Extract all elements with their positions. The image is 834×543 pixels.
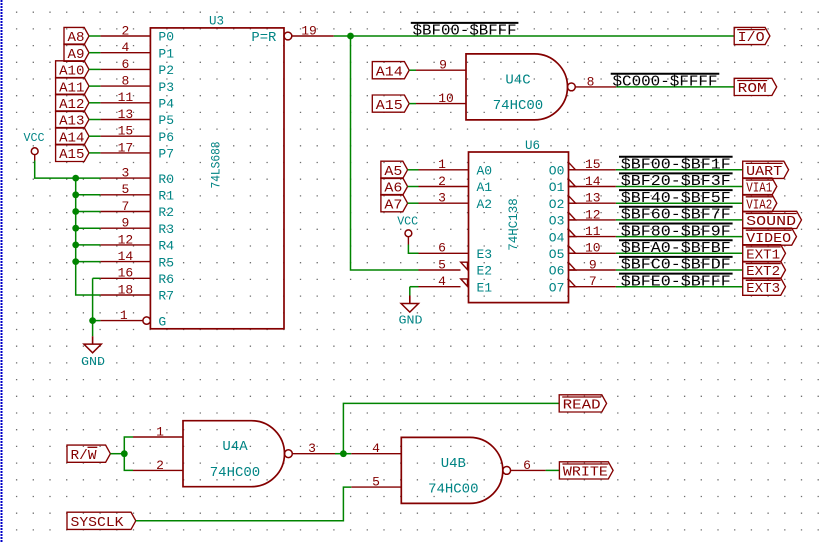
svg-text:O1: O1 bbox=[549, 180, 565, 195]
svg-text:U3: U3 bbox=[209, 14, 224, 28]
wire bbox=[76, 227, 101, 229]
net flag UART bbox=[743, 161, 789, 180]
pin 6 of U4B bbox=[511, 458, 546, 473]
IC U3 74LS688 body bbox=[150, 28, 284, 329]
net name label $BFA0-$BFBF bbox=[619, 240, 733, 257]
svg-text:SYSCLK: SYSCLK bbox=[71, 515, 125, 531]
pin 3 (A2) of U6 bbox=[419, 191, 493, 212]
wire bbox=[616, 252, 743, 254]
wire bbox=[616, 86, 734, 88]
svg-text:R2: R2 bbox=[158, 205, 174, 220]
svg-text:G: G bbox=[158, 314, 166, 329]
pin 4 (E1, active-low) of U6 bbox=[419, 274, 493, 295]
svg-text:8: 8 bbox=[587, 74, 595, 89]
net name label $BFC0-$BFDF bbox=[619, 257, 733, 274]
svg-text:15: 15 bbox=[585, 157, 601, 172]
pin 5 (R1) of U3 bbox=[100, 182, 174, 203]
svg-text:5: 5 bbox=[121, 182, 129, 197]
svg-text:R/W: R/W bbox=[71, 448, 98, 464]
ground (U6 E1) bbox=[399, 296, 423, 328]
net flag EXT2 bbox=[743, 261, 786, 280]
svg-text:A7: A7 bbox=[384, 197, 402, 213]
wire bbox=[409, 69, 416, 71]
svg-text:A15: A15 bbox=[59, 147, 84, 163]
pin 1 (G, inverted) of U3 bbox=[100, 308, 166, 329]
net label R/W bbox=[67, 445, 110, 464]
pin 15 (O0, active-low) of U6 bbox=[549, 157, 616, 178]
wire bbox=[409, 287, 411, 296]
wire bbox=[408, 186, 419, 188]
svg-text:WRITE: WRITE bbox=[563, 465, 608, 481]
svg-text:$BF20-$BF3F: $BF20-$BF3F bbox=[621, 174, 731, 190]
svg-text:$C000-$FFFF: $C000-$FFFF bbox=[613, 75, 718, 91]
svg-text:A0: A0 bbox=[477, 164, 493, 179]
svg-text:74HC00: 74HC00 bbox=[210, 465, 260, 481]
wire bbox=[409, 103, 416, 105]
svg-text:P5: P5 bbox=[158, 113, 174, 128]
svg-text:O3: O3 bbox=[549, 214, 565, 229]
pin 14 (O1, active-low) of U6 bbox=[549, 174, 616, 195]
svg-text:O2: O2 bbox=[549, 197, 565, 212]
svg-text:$BFC0-$BFDF: $BFC0-$BFDF bbox=[621, 258, 731, 274]
NAND gate U4B 74HC00 bbox=[401, 437, 510, 503]
pin 9 (R3) of U3 bbox=[100, 216, 174, 237]
svg-text:R3: R3 bbox=[158, 222, 174, 237]
junction bbox=[72, 175, 79, 182]
wire bbox=[616, 219, 743, 221]
net label A10 bbox=[56, 61, 89, 80]
svg-text:O7: O7 bbox=[549, 280, 565, 295]
junction bbox=[72, 191, 79, 198]
svg-text:A2: A2 bbox=[477, 197, 493, 212]
svg-text:U4C: U4C bbox=[505, 72, 530, 88]
svg-text:P7: P7 bbox=[158, 147, 174, 162]
svg-text:16: 16 bbox=[118, 266, 134, 281]
pin 3 (R0) of U3 bbox=[100, 166, 174, 187]
pin 16 (R6) of U3 bbox=[100, 266, 174, 287]
wire bbox=[89, 152, 100, 154]
junction bbox=[72, 258, 79, 265]
wire bbox=[124, 454, 133, 471]
svg-text:17: 17 bbox=[118, 140, 134, 155]
net name label $BF60-$BF7F bbox=[619, 207, 733, 224]
wire bbox=[89, 102, 100, 104]
pin 6 (P2) of U3 bbox=[100, 57, 174, 78]
net name label $BF00-$BFFF bbox=[411, 23, 519, 40]
pin 2 (P0) of U3 bbox=[100, 23, 174, 44]
svg-text:GND: GND bbox=[81, 355, 105, 369]
svg-text:P1: P1 bbox=[158, 46, 174, 61]
svg-text:3: 3 bbox=[308, 441, 316, 456]
pin 11 (P4) of U3 bbox=[100, 90, 174, 111]
wire SYSCLK to U4B pin 5 bbox=[136, 487, 351, 521]
svg-text:U4A: U4A bbox=[222, 439, 248, 455]
wire bbox=[89, 68, 100, 70]
net flag VIA1 bbox=[743, 178, 777, 197]
junction bbox=[72, 208, 79, 215]
wire bbox=[343, 453, 351, 455]
pin 18 (R7) of U3 bbox=[100, 282, 174, 303]
svg-text:4: 4 bbox=[121, 40, 129, 55]
svg-text:12: 12 bbox=[585, 207, 601, 222]
pin 13 (P5) of U3 bbox=[100, 107, 174, 128]
wire bbox=[93, 277, 101, 279]
net name label $BF40-$BF5F bbox=[619, 190, 733, 207]
svg-text:EXT3: EXT3 bbox=[746, 281, 780, 297]
net label A15 (U4C) bbox=[372, 95, 409, 114]
svg-text:E3: E3 bbox=[477, 247, 493, 262]
svg-text:6: 6 bbox=[523, 458, 531, 473]
net flag SOUND bbox=[743, 211, 802, 230]
pin 10 (O5, active-low) of U6 bbox=[549, 241, 616, 262]
svg-text:A15: A15 bbox=[376, 98, 403, 114]
wire bbox=[546, 469, 560, 471]
svg-text:U6: U6 bbox=[525, 139, 540, 153]
svg-text:GND: GND bbox=[399, 314, 423, 328]
svg-text:READ: READ bbox=[563, 398, 601, 414]
svg-text:7: 7 bbox=[121, 199, 129, 214]
svg-text:$BF00-$BF1F: $BF00-$BF1F bbox=[621, 158, 731, 174]
svg-text:O4: O4 bbox=[549, 230, 565, 245]
svg-text:ROM: ROM bbox=[738, 81, 767, 97]
power VCC (U6 E3) bbox=[397, 215, 418, 245]
svg-text:9: 9 bbox=[589, 257, 597, 272]
svg-text:8: 8 bbox=[121, 74, 129, 89]
net flag VIA2 bbox=[743, 195, 777, 214]
svg-text:13: 13 bbox=[118, 107, 134, 122]
wire bbox=[408, 169, 419, 171]
svg-text:R4: R4 bbox=[158, 239, 174, 254]
svg-text:6: 6 bbox=[438, 241, 446, 256]
net label A8 bbox=[64, 27, 89, 46]
svg-text:18: 18 bbox=[118, 282, 134, 297]
net flag ROM bbox=[734, 78, 777, 97]
svg-text:$BF40-$BF5F: $BF40-$BF5F bbox=[621, 191, 731, 207]
wire bbox=[35, 161, 76, 179]
svg-text:P0: P0 bbox=[158, 30, 174, 45]
pin 1 of U4A bbox=[133, 424, 183, 439]
wire bbox=[110, 453, 124, 455]
ground (U3 G pin) bbox=[81, 336, 105, 369]
power VCC (U3 R inputs) bbox=[24, 131, 45, 161]
net label A9 bbox=[64, 44, 89, 63]
net label A14 bbox=[56, 128, 89, 147]
svg-text:5: 5 bbox=[438, 257, 446, 272]
svg-text:R5: R5 bbox=[158, 255, 174, 270]
net name label $BFE0-$BFFF bbox=[619, 274, 733, 291]
IC U6 74HC138 body bbox=[469, 152, 569, 303]
net name label $BF00-$BF1F bbox=[619, 157, 733, 174]
pin 12 (O3, active-low) of U6 bbox=[549, 207, 616, 228]
svg-text:10: 10 bbox=[438, 91, 454, 106]
NAND gate U4A 74HC00 bbox=[183, 421, 292, 487]
pin 13 (O2, active-low) of U6 bbox=[549, 191, 616, 212]
svg-text:2: 2 bbox=[121, 23, 129, 38]
svg-text:$BF60-$BF7F: $BF60-$BF7F bbox=[621, 208, 731, 224]
wire from P=R to E2 of U6 bbox=[351, 36, 419, 270]
net label A5 bbox=[381, 161, 408, 180]
wire bbox=[616, 186, 743, 188]
svg-text:1: 1 bbox=[438, 157, 446, 172]
NAND gate U4C 74HC00 bbox=[466, 54, 575, 120]
wire to READ bbox=[343, 403, 559, 453]
wire bbox=[89, 52, 100, 54]
net label A15 bbox=[56, 144, 89, 163]
wire bbox=[410, 286, 419, 288]
svg-text:VCC: VCC bbox=[397, 215, 418, 229]
pin 5 (E2, active-low) of U6 bbox=[419, 257, 493, 278]
net name label $BF80-$BF9F bbox=[619, 224, 733, 241]
svg-text:$BF00-$BFFF: $BF00-$BFFF bbox=[413, 24, 517, 40]
pin 6 (E3) of U6 bbox=[419, 241, 493, 262]
svg-text:15: 15 bbox=[118, 124, 134, 139]
svg-text:74LS688: 74LS688 bbox=[210, 142, 224, 189]
pin 4 (P1) of U3 bbox=[100, 40, 174, 61]
wire bbox=[89, 119, 100, 121]
junction bbox=[89, 317, 96, 324]
pin 11 (O4, active-low) of U6 bbox=[549, 224, 616, 245]
svg-text:10: 10 bbox=[585, 241, 601, 256]
wire bbox=[93, 320, 101, 322]
pin 12 (R4) of U3 bbox=[100, 232, 174, 253]
svg-text:O5: O5 bbox=[549, 247, 565, 262]
net label A14 (U4C) bbox=[372, 62, 409, 81]
pin 4 of U4B bbox=[351, 441, 401, 456]
wire bbox=[89, 135, 100, 137]
svg-text:5: 5 bbox=[372, 475, 380, 490]
pin 19 (P=R output, inverted) of U3 bbox=[284, 23, 334, 39]
junction bbox=[121, 450, 128, 457]
svg-text:P4: P4 bbox=[158, 97, 174, 112]
pin 1 (A0) of U6 bbox=[419, 157, 493, 178]
svg-text:4: 4 bbox=[372, 441, 380, 456]
svg-text:2: 2 bbox=[438, 174, 446, 189]
svg-text:R7: R7 bbox=[158, 289, 174, 304]
svg-text:74HC00: 74HC00 bbox=[428, 482, 478, 498]
pin 8 (P3) of U3 bbox=[100, 74, 174, 95]
svg-text:R1: R1 bbox=[158, 189, 174, 204]
pin 7 (O7, active-low) of U6 bbox=[549, 274, 616, 295]
svg-text:4: 4 bbox=[438, 274, 446, 289]
wire bbox=[76, 177, 101, 179]
wire bbox=[89, 85, 100, 87]
svg-text:13: 13 bbox=[585, 191, 601, 206]
net label A11 bbox=[56, 78, 89, 97]
svg-text:P2: P2 bbox=[158, 63, 174, 78]
svg-text:O0: O0 bbox=[549, 164, 565, 179]
svg-text:R0: R0 bbox=[158, 172, 174, 187]
wire bbox=[76, 244, 101, 246]
pin 14 (R5) of U3 bbox=[100, 249, 174, 270]
svg-text:1: 1 bbox=[156, 424, 164, 439]
pin 10 of U4C bbox=[416, 91, 466, 106]
pin 7 (R2) of U3 bbox=[100, 199, 174, 220]
pin 17 (P7) of U3 bbox=[100, 140, 174, 161]
svg-text:7: 7 bbox=[589, 274, 597, 289]
net name label $C000-$FFFF bbox=[611, 74, 720, 91]
svg-text:9: 9 bbox=[439, 58, 447, 73]
svg-text:74HC00: 74HC00 bbox=[493, 98, 543, 114]
wire bbox=[124, 437, 133, 454]
svg-text:19: 19 bbox=[301, 23, 317, 38]
wire bbox=[616, 269, 743, 271]
svg-text:VCC: VCC bbox=[24, 131, 45, 145]
wire bbox=[92, 278, 94, 336]
wire bbox=[616, 169, 743, 171]
svg-text:14: 14 bbox=[118, 249, 134, 264]
wire bbox=[89, 35, 100, 37]
svg-text:12: 12 bbox=[118, 232, 134, 247]
wire bbox=[616, 236, 743, 238]
net flag I/O bbox=[734, 27, 770, 46]
svg-text:P=R: P=R bbox=[251, 30, 277, 46]
pin 9 of U4C bbox=[416, 58, 466, 73]
wire bbox=[408, 202, 419, 204]
net label A12 bbox=[56, 94, 89, 113]
wire bbox=[408, 245, 418, 254]
svg-text:O6: O6 bbox=[549, 264, 565, 279]
svg-text:$BFA0-$BFBF: $BFA0-$BFBF bbox=[621, 241, 731, 257]
svg-text:11: 11 bbox=[585, 224, 601, 239]
svg-text:R6: R6 bbox=[158, 272, 174, 287]
wire bbox=[616, 202, 743, 204]
pin 5 of U4B bbox=[351, 475, 401, 490]
net label A7 bbox=[381, 195, 408, 214]
net flag VIDEO bbox=[743, 228, 797, 247]
wire bbox=[616, 286, 743, 288]
svg-text:6: 6 bbox=[121, 57, 129, 72]
svg-text:3: 3 bbox=[438, 191, 446, 206]
net label A13 bbox=[56, 111, 89, 130]
svg-text:A1: A1 bbox=[477, 180, 493, 195]
net name label $BF20-$BF3F bbox=[619, 173, 733, 190]
junction bbox=[347, 33, 354, 40]
pin 15 (P6) of U3 bbox=[100, 124, 174, 145]
svg-text:74HC138: 74HC138 bbox=[507, 198, 521, 251]
svg-text:9: 9 bbox=[121, 216, 129, 231]
svg-text:11: 11 bbox=[118, 90, 134, 105]
wire bbox=[76, 194, 101, 196]
svg-text:14: 14 bbox=[585, 174, 601, 189]
svg-text:U4B: U4B bbox=[441, 456, 466, 472]
net flag EXT3 bbox=[743, 278, 786, 297]
svg-text:3: 3 bbox=[121, 166, 129, 181]
net flag EXT1 bbox=[743, 245, 786, 264]
pin 3 of U4A bbox=[292, 441, 335, 456]
svg-text:E2: E2 bbox=[477, 264, 493, 279]
wire bbox=[76, 261, 101, 263]
net flag READ bbox=[559, 395, 606, 414]
net label A6 bbox=[381, 178, 408, 197]
pin 9 (O6, active-low) of U6 bbox=[549, 257, 616, 278]
svg-text:P6: P6 bbox=[158, 130, 174, 145]
net label SYSCLK bbox=[67, 512, 136, 531]
svg-text:$BF80-$BF9F: $BF80-$BF9F bbox=[621, 224, 731, 240]
wire bbox=[76, 211, 101, 213]
wire bus to R0-R7 bbox=[76, 178, 101, 295]
pin 8 of U4C bbox=[575, 74, 616, 89]
svg-text:I/O: I/O bbox=[738, 30, 765, 46]
svg-text:2: 2 bbox=[156, 458, 164, 473]
junction bbox=[72, 225, 79, 232]
net flag WRITE bbox=[559, 462, 613, 481]
svg-text:1: 1 bbox=[120, 308, 128, 323]
svg-text:P3: P3 bbox=[158, 80, 174, 95]
wire bbox=[334, 35, 735, 37]
svg-text:$BFE0-$BFFF: $BFE0-$BFFF bbox=[621, 274, 731, 290]
wire bbox=[335, 453, 343, 455]
svg-text:A14: A14 bbox=[376, 64, 403, 80]
pin 2 of U4A bbox=[133, 458, 183, 473]
pin 2 (A1) of U6 bbox=[419, 174, 493, 195]
junction bbox=[72, 242, 79, 249]
junction bbox=[340, 450, 347, 457]
svg-text:E1: E1 bbox=[477, 280, 493, 295]
